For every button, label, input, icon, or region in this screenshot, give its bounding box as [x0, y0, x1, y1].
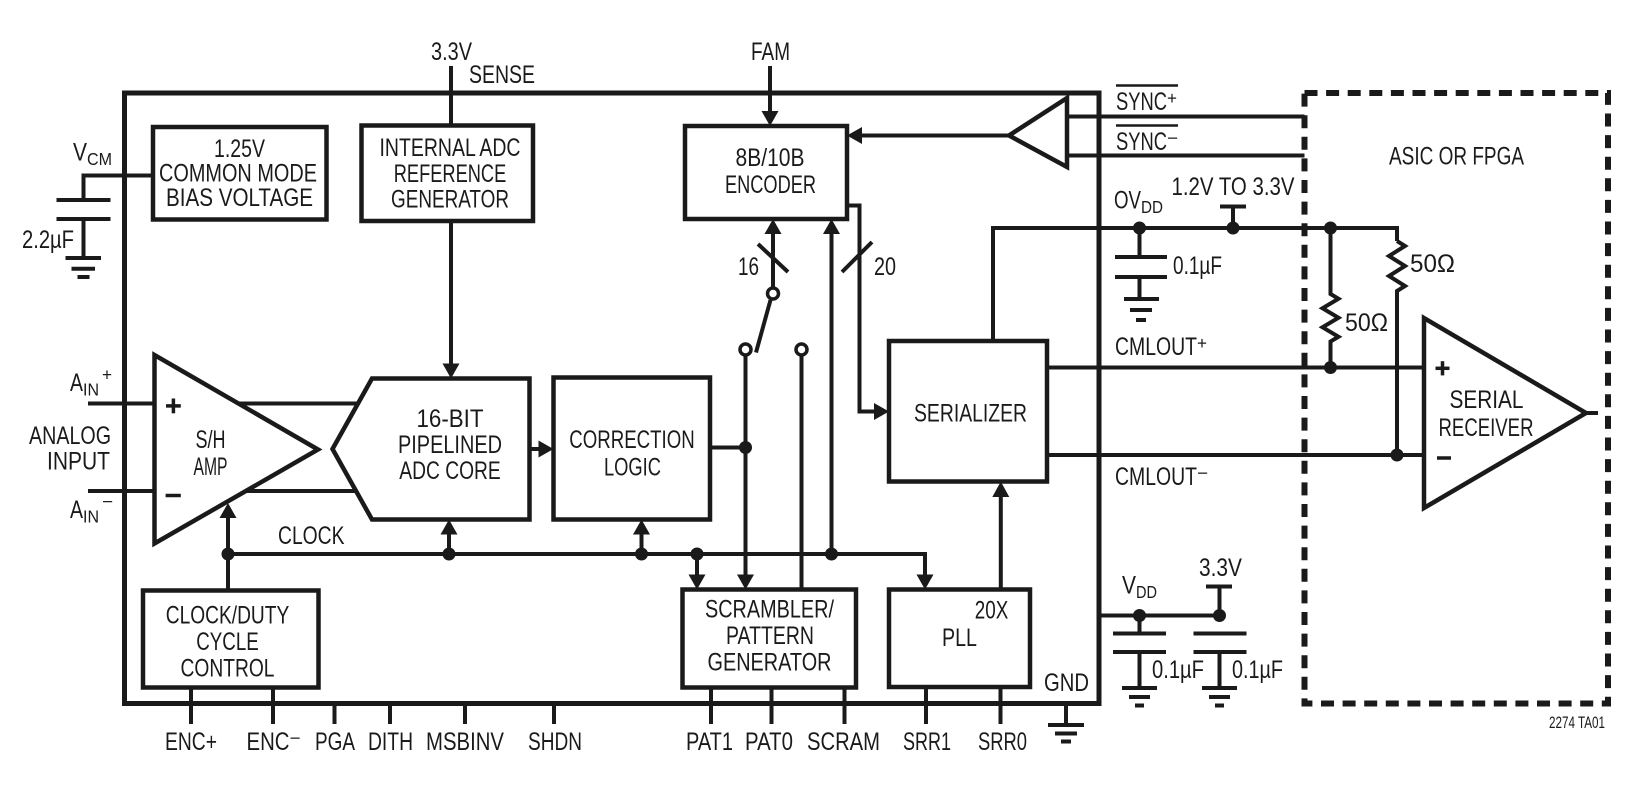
svg-text:20X: 20X	[975, 597, 1009, 625]
svg-text:GND: GND	[1044, 669, 1089, 697]
power tap 3.3V	[1206, 587, 1232, 616]
minus sign serial receiver	[1437, 456, 1451, 460]
svg-text:CYCLE: CYCLE	[196, 628, 259, 656]
svg-text:2.2µF: 2.2µF	[22, 226, 74, 254]
switch contact top	[768, 288, 779, 299]
wire VCM to bias box	[84, 176, 154, 201]
svg-text:PATTERN: PATTERN	[726, 622, 814, 650]
svg-text:S/H: S/H	[196, 426, 226, 454]
wire riser to encoder with arrow	[830, 233, 834, 554]
junction correction output	[739, 441, 752, 454]
minus sign S/H amp	[166, 494, 181, 498]
wire SYNC+ line	[1067, 115, 1305, 119]
svg-text:ANALOG: ANALOG	[29, 422, 111, 450]
svg-text:RECEIVER: RECEIVER	[1439, 414, 1534, 442]
svg-text:REFERENCE: REFERENCE	[394, 160, 507, 188]
svg-text:CLOCK: CLOCK	[278, 522, 345, 550]
box CLOCK/DUTY CYCLE CONTROL	[143, 591, 319, 688]
svg-text:ENC+: ENC+	[165, 728, 217, 756]
wire scrambler second output riser	[800, 355, 804, 590]
wire encoder to serializer 20-bit bus	[847, 206, 874, 412]
wire ADC core to correction logic with arrow	[530, 447, 541, 451]
wire AIN+ input	[88, 402, 155, 406]
svg-text:BIAS VOLTAGE: BIAS VOLTAGE	[166, 184, 313, 212]
power tap 1.2V TO 3.3V	[1220, 207, 1246, 229]
junction OVDD at 50ohm	[1324, 222, 1337, 235]
svg-text:GENERATOR: GENERATOR	[708, 649, 832, 677]
chip outline LTC2274	[125, 93, 1100, 704]
junction clock at S/H amp	[222, 548, 235, 561]
svg-text:SENSE: SENSE	[469, 61, 535, 89]
box CORRECTION LOGIC	[554, 378, 711, 520]
junction clock at correction logic	[635, 548, 648, 561]
resistor 50 ohm left	[1323, 228, 1339, 368]
svg-text:INPUT: INPUT	[47, 448, 110, 476]
junction CMLOUT+ at 50ohm	[1324, 361, 1337, 374]
capacitor 0.1uF VDD1	[1113, 616, 1166, 689]
pin SRR0	[999, 687, 1003, 724]
wire PLL to serializer with arrow	[999, 496, 1003, 590]
plus sign S/H amp	[166, 399, 181, 414]
capacitor 2.2uF	[57, 200, 111, 258]
arrow clock into S/H amp	[226, 517, 230, 554]
wire VDD net	[1099, 614, 1220, 618]
svg-text:1.2V TO 3.3V: 1.2V TO 3.3V	[1172, 173, 1295, 201]
svg-text:SERIALIZER: SERIALIZER	[914, 400, 1027, 428]
svg-text:SERIAL: SERIAL	[1450, 386, 1524, 414]
arrow clock into PLL	[917, 575, 934, 590]
svg-text:CORRECTION: CORRECTION	[569, 426, 695, 454]
ground 2.2uF	[66, 258, 102, 277]
svg-text:8B/10B: 8B/10B	[736, 144, 805, 172]
svg-text:DITH: DITH	[368, 728, 413, 756]
svg-text:50Ω: 50Ω	[1410, 250, 1455, 278]
wire 16-bit bus encoder to switch with arrow	[771, 233, 775, 288]
wire AIN- input	[88, 489, 155, 493]
svg-text:GENERATOR: GENERATOR	[391, 186, 509, 214]
pin PAT0	[770, 688, 774, 725]
arrow clock into scrambler	[695, 554, 699, 576]
svg-text:INTERNAL ADC: INTERNAL ADC	[380, 134, 521, 162]
box SERIALIZER	[889, 341, 1047, 482]
wire 3.3V SENSE into ref generator	[449, 66, 453, 126]
switch contact right	[796, 344, 807, 355]
SERIAL RECEIVER triangle	[1424, 318, 1586, 508]
svg-text:SHDN: SHDN	[528, 728, 582, 756]
svg-text:PIPELINED: PIPELINED	[398, 431, 502, 459]
wire CLOCK bus	[228, 554, 925, 576]
pin SRR1	[924, 687, 928, 724]
svg-text:AMP: AMP	[194, 453, 228, 481]
svg-text:16: 16	[738, 253, 759, 281]
junction clock to scrambler	[691, 548, 704, 561]
ground OVDD cap	[1124, 299, 1159, 320]
pin ENC+	[189, 688, 193, 725]
svg-text:PGA: PGA	[315, 728, 355, 756]
svg-text:0.1µF: 0.1µF	[1173, 252, 1222, 280]
wire clock duty control to clock node	[226, 554, 230, 591]
svg-text:ADC CORE: ADC CORE	[399, 457, 501, 485]
wire CMLOUT+	[1047, 366, 1424, 370]
pin ENC-	[271, 688, 275, 725]
svg-text:SCRAM: SCRAM	[807, 728, 880, 756]
svg-text:PAT1: PAT1	[686, 728, 733, 756]
junction VDD at cap2	[1213, 609, 1226, 622]
svg-text:0.1µF: 0.1µF	[1232, 656, 1283, 684]
svg-text:CMLOUT+: CMLOUT+	[1115, 333, 1207, 361]
ASIC OR FPGA dashed box	[1305, 93, 1609, 704]
svg-text:3.3V: 3.3V	[431, 38, 472, 66]
svg-text:CONTROL: CONTROL	[181, 655, 275, 683]
svg-text:PLL: PLL	[942, 624, 977, 652]
arrow clock into correction logic	[640, 534, 644, 554]
wire ref generator to ADC core with arrow	[449, 221, 453, 365]
svg-text:FAM: FAM	[751, 38, 790, 66]
box 8B/10B ENCODER	[685, 126, 847, 219]
ground VDD cap1	[1122, 688, 1157, 706]
box SCRAMBLER/PATTERN GENERATOR	[683, 590, 857, 688]
svg-text:PAT0: PAT0	[745, 728, 793, 756]
svg-text:20: 20	[874, 253, 896, 281]
16-BIT PIPELINED ADC CORE polygon	[333, 379, 530, 520]
wire switch pole down to scrambler with arrow	[744, 355, 748, 576]
switch lever	[756, 300, 771, 353]
wire sync buffer to encoder with arrow	[862, 134, 1009, 138]
arrow clock into ADC core	[447, 534, 451, 554]
pin PAT1	[709, 688, 713, 725]
wire SYNC- line	[1067, 154, 1305, 158]
wire S/H amp to ADC core bottom	[245, 489, 356, 493]
svg-text:0.1µF: 0.1µF	[1152, 656, 1204, 684]
plus sign serial receiver	[1436, 361, 1450, 375]
ground VDD cap2	[1202, 688, 1237, 706]
box INTERNAL ADC REFERENCE GENERATOR	[362, 126, 534, 222]
wire S/H amp to ADC core top	[239, 402, 358, 406]
svg-text:CMLOUT−: CMLOUT−	[1115, 463, 1208, 491]
junction clock to encoder riser	[825, 548, 838, 561]
svg-text:LOGIC: LOGIC	[604, 454, 661, 482]
bus slash 20	[842, 242, 872, 272]
wire CMLOUT-	[1047, 453, 1424, 457]
box 1.25V COMMON MODE BIAS VOLTAGE	[153, 127, 327, 220]
bus slash 16	[758, 244, 788, 272]
svg-text:MSBINV: MSBINV	[426, 728, 504, 756]
resistor 50 ohm right	[1389, 241, 1405, 455]
svg-text:ASIC OR FPGA: ASIC OR FPGA	[1389, 143, 1524, 171]
svg-text:SRR1: SRR1	[903, 728, 951, 756]
svg-text:2274 TA01: 2274 TA01	[1549, 714, 1605, 732]
box 20X PLL	[889, 590, 1030, 688]
svg-text:3.3V: 3.3V	[1199, 554, 1242, 582]
capacitor 0.1uF VDD2	[1194, 634, 1247, 689]
ground GND pin	[1048, 704, 1084, 742]
switch contact left	[740, 344, 751, 355]
pin MSBINV	[463, 704, 467, 725]
junction CMLOUT- at 50ohm	[1391, 449, 1404, 462]
junction clock at ADC core	[443, 548, 456, 561]
wire correction logic output to switch node	[710, 446, 746, 450]
wire FAM into encoder with arrow	[768, 66, 772, 112]
svg-text:ENCODER: ENCODER	[725, 171, 816, 199]
junction VDD at cap1	[1133, 609, 1146, 622]
svg-text:50Ω: 50Ω	[1345, 309, 1388, 337]
svg-text:SCRAMBLER/: SCRAMBLER/	[705, 596, 834, 624]
capacitor 0.1uF OVDD	[1115, 228, 1167, 299]
SYNC input buffer triangle	[1009, 98, 1067, 167]
pin DITH	[388, 704, 392, 725]
wire serial receiver output stub	[1586, 411, 1598, 415]
wire OVDD net	[993, 228, 1397, 341]
svg-text:SRR0: SRR0	[978, 728, 1027, 756]
pin PGA	[333, 704, 337, 725]
pin SHDN	[552, 704, 556, 725]
op-amp S/H AMP triangle	[155, 355, 319, 544]
junction OVDD at power tap	[1227, 222, 1240, 235]
junction OVDD at capacitor	[1133, 222, 1146, 235]
svg-text:16-BIT: 16-BIT	[417, 405, 484, 433]
pin SCRAM	[843, 688, 847, 725]
svg-text:CLOCK/DUTY: CLOCK/DUTY	[166, 602, 290, 630]
